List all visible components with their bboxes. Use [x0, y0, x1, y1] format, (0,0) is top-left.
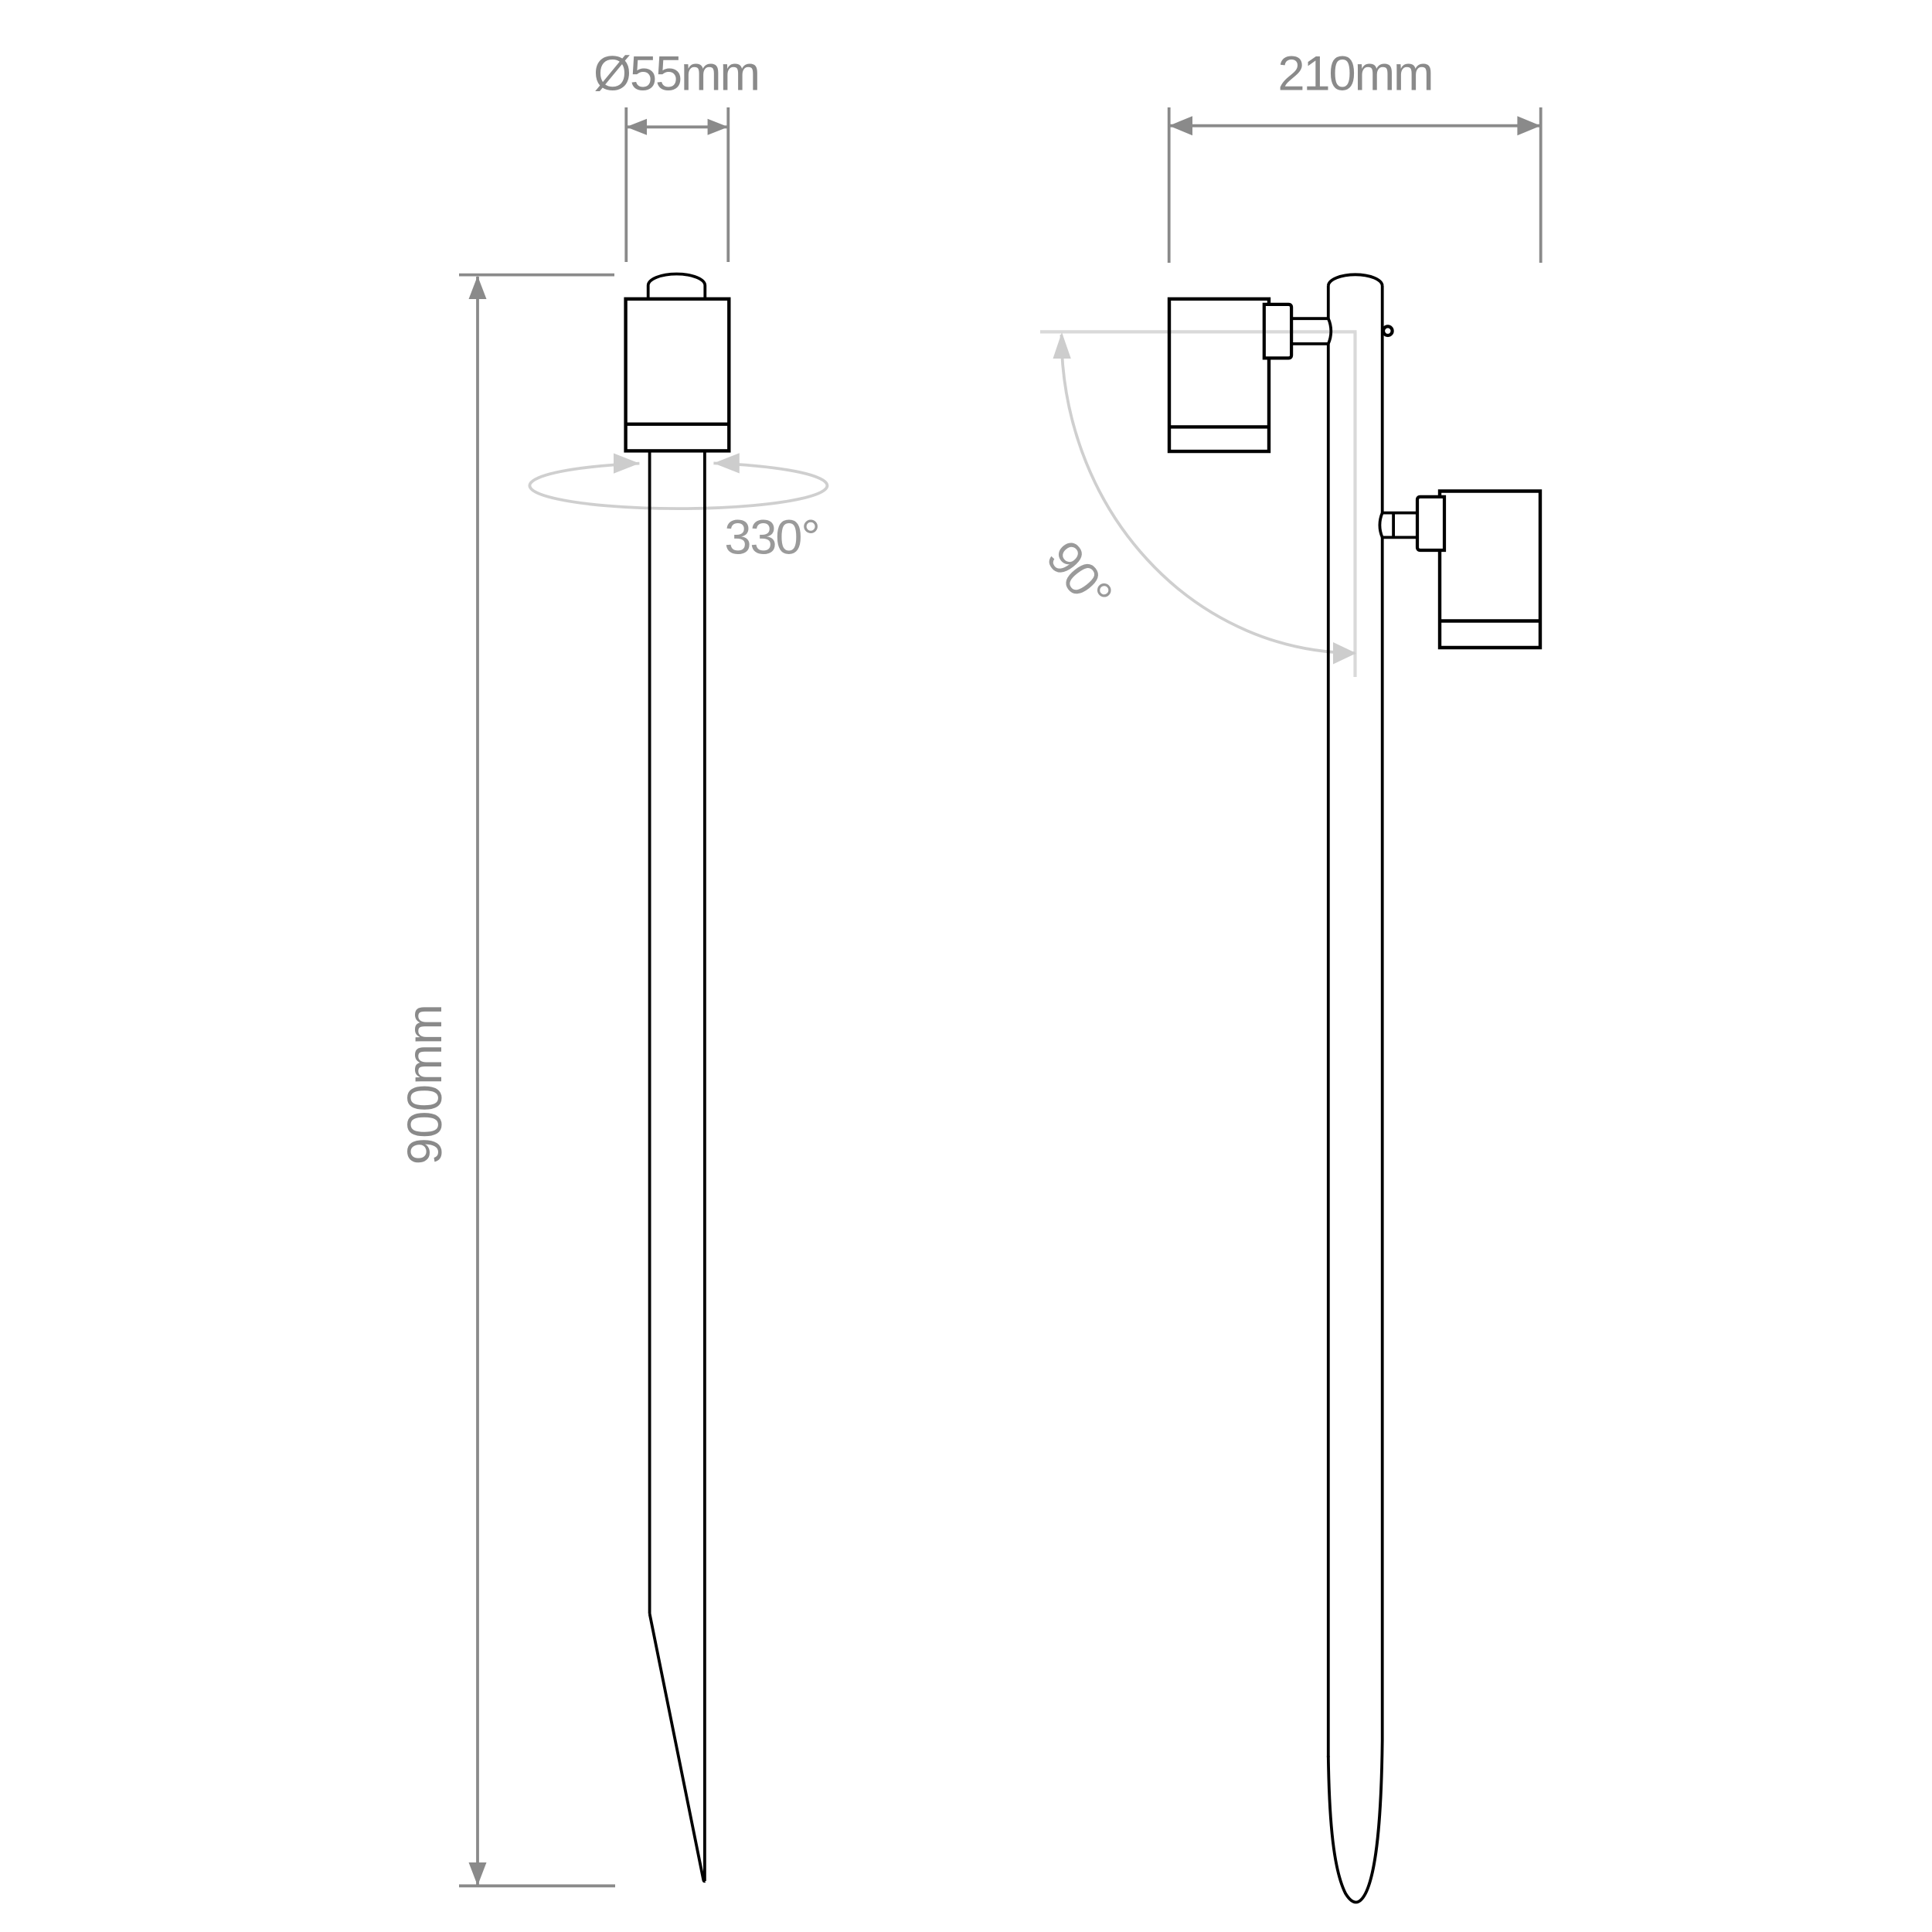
- lower spotlight mounting block outline: [1417, 497, 1444, 550]
- rotation indicator ellipse 330°: [529, 463, 827, 509]
- pole bottom rounded tip: [1328, 1740, 1383, 1903]
- lower spotlight neck top: [1383, 512, 1417, 515]
- pole left edge (broken at upper neck): [1327, 286, 1330, 1758]
- spike pole right edge: [703, 451, 706, 1881]
- extension line top (900mm): [459, 274, 614, 277]
- 90° sweep arc: [1062, 335, 1355, 653]
- spike pole left edge: [648, 451, 651, 1614]
- lamp head body: [626, 299, 730, 451]
- lower spotlight mounting block fill: [1417, 497, 1444, 550]
- extension line left (210mm): [1168, 107, 1171, 263]
- upper spotlight neck top: [1291, 317, 1328, 320]
- svg-text:900mm: 900mm: [398, 1005, 452, 1165]
- arrowhead Ø55mm right: [708, 119, 729, 135]
- svg-text:330°: 330°: [724, 511, 818, 565]
- extension line right (210mm): [1539, 107, 1543, 263]
- arrowhead Ø55mm left: [626, 119, 647, 135]
- 90° arc arrow up: [1053, 332, 1071, 359]
- 90° reference vertical line: [1353, 332, 1356, 677]
- lower spotlight pivot line: [1392, 513, 1395, 538]
- dimension line Ø55mm: [626, 125, 728, 128]
- 90° reference horizontal line: [1040, 330, 1357, 333]
- dimension label 900mm (rotated): [398, 1005, 452, 1165]
- upper spotlight mounting block fill: [1264, 304, 1291, 359]
- lamp head top cap: [648, 274, 706, 300]
- lower spotlight bezel line: [1440, 619, 1540, 622]
- dimension line 900mm: [476, 277, 479, 1886]
- lower spotlight body: [1440, 492, 1540, 648]
- rotation arrow right (330°): [713, 453, 739, 473]
- extension line right (Ø55mm): [726, 107, 730, 262]
- upper spotlight pivot bulge: [1328, 318, 1331, 344]
- arrowhead 900mm bottom: [469, 1862, 487, 1886]
- arrowhead 210mm left: [1169, 116, 1192, 135]
- 90° arc arrow right: [1333, 642, 1356, 665]
- lower spotlight neck bottom: [1383, 536, 1417, 539]
- rotation label 90° (rotated): [1036, 531, 1122, 621]
- pole right edge (broken at lower neck): [1381, 286, 1384, 1741]
- adjustment screw on pole: [1383, 326, 1393, 335]
- arrowhead 900mm top: [469, 276, 487, 299]
- pole top dome: [1328, 274, 1383, 285]
- upper spotlight neck bottom: [1291, 342, 1328, 345]
- arrowhead 210mm right: [1517, 116, 1540, 135]
- svg-text:Ø55mm: Ø55mm: [594, 47, 759, 101]
- spike taper: [650, 1614, 705, 1881]
- upper spotlight bezel line: [1169, 425, 1269, 428]
- lower spotlight pivot bulge: [1379, 513, 1382, 538]
- rotation arrow left (330°): [614, 454, 639, 474]
- upper spotlight body: [1169, 299, 1269, 451]
- upper spotlight mounting block outline: [1264, 304, 1291, 359]
- lamp head bezel line: [626, 423, 730, 426]
- svg-text:210mm: 210mm: [1277, 47, 1432, 101]
- dimension line 210mm: [1169, 124, 1541, 128]
- extension line bottom (900mm): [459, 1884, 615, 1887]
- extension line left (Ø55mm): [624, 107, 628, 262]
